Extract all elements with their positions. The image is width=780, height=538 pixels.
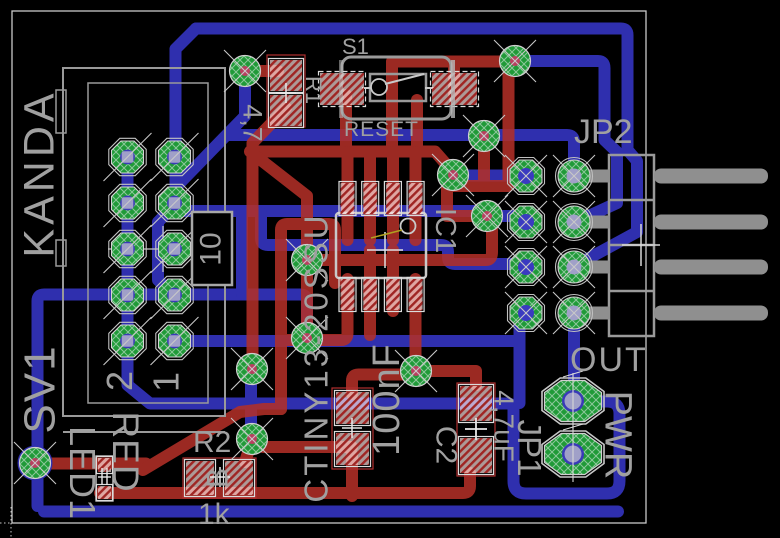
svg-text:KANDA: KANDA [16,89,64,257]
wire blue left vertical + row4 horizontal to via V6 [38,295,308,507]
via V5 [286,239,328,281]
via V11 [463,115,505,157]
header JP2 pads column 1 [505,155,547,197]
wire blue via V4 to JP2 pad 2 [487,216,526,222]
wire red vertical x281: up from LED diagonal, corner right to IC1 pad1 [281,224,335,409]
svg-text:LED1: LED1 [62,426,103,520]
IC1 pin 1 marker circle [401,219,416,234]
wire red bus diagonal down to via V5 [250,152,307,261]
svg-text:B: B [202,468,235,488]
wire red LED1 diagonal up to IC1 pin 1 net vertical [143,409,281,470]
JP2 origin cross [622,224,660,266]
wire blue SV1 left pad column down to bus [122,157,134,341]
via V9 [231,418,273,460]
wire blue vertical under JP2 pad4 down to long horizontal [514,313,526,403]
connector SV1 outline [56,68,225,416]
wire red IC1 bottom pads stubs [364,250,376,335]
via V2 [494,40,536,82]
svg-text:JP2: JP2 [574,113,633,151]
LED1 (RED) [96,456,113,501]
svg-text:RED: RED [105,411,146,492]
SV1 box extra silk line [63,431,225,433]
via V1 [224,50,266,92]
via V6 [286,317,328,359]
connector SV1 pads (through-hole) [104,133,152,181]
svg-text:OUT: OUT [570,341,648,379]
switch S1 lever and pin lines [362,74,434,95]
svg-text:RESET: RESET [344,118,419,141]
wire blue top bar1: top rail, right side down into JP2 pad 7 [196,29,637,268]
header JP2 pads column 2 [553,155,595,197]
IC1 origin cross [367,232,403,268]
board outline (Dimension layer) [12,11,646,523]
wire blue branch down from L1 to row4 horizontal [236,211,248,294]
svg-text:S1: S1 [342,34,369,59]
wire blue via V3 to JP2 pad 1 row [453,170,526,182]
header JP2 pins (gray) [574,169,768,321]
wire red via V11 stub [478,136,490,182]
origin cross bottom-left [0,507,30,538]
wire red R1 bottom pad long vertical through vias V7 V9 [253,108,287,369]
wire red via V10 to LED1 top pad [35,458,146,470]
wire red via V9 to C1 bottom pad [252,439,352,447]
wire blue SV1 pad 10 through via V6 to JP2 pad 4 column [175,341,520,347]
wire red C1 bottom pad down to bottom horizontal [346,455,358,496]
wire red IC1 pin traces from bus into body [342,152,354,240]
svg-text:PWR: PWR [597,391,639,480]
svg-text:JP1: JP1 [511,420,548,477]
via V8 [395,350,437,392]
svg-text:CTINY13-20SSU: CTINY13-20SSU [298,212,335,502]
svg-text:10: 10 [195,232,228,265]
wire red horizontal bus under S1 from SV1 pad2 toward via V3 [252,152,453,173]
wire blue SV1 right column S-curve rows 2-4 [158,205,175,297]
switch S1 pin line over pad [451,60,455,118]
wire red R1 top pad to via V1 [245,65,278,77]
SV1 origin cross [108,226,220,272]
IC1 pads [341,183,355,214]
wire red S1 left pad down to bus [340,95,352,152]
via V7 [231,348,273,390]
wire blue L2 loop from L1 down to JP2 pad 3 [261,213,526,267]
svg-text:R2: R2 [193,426,231,459]
wire blue bar2 from via V2 to JP2 pad 6 [515,61,617,222]
via V4 [466,195,508,237]
svg-text:R1: R1 [301,76,326,104]
wire blue center route: SV1 pad(175,203) to under-IC horizontals [175,203,488,216]
via V10 blue annulus [18,446,53,481]
switch S1 pads [320,73,364,105]
wire red via V5 right then up to via V4 [307,216,492,260]
svg-text:100nF: 100nF [366,343,408,456]
wire blue bottom bus [44,506,618,518]
header JP2 body outline [609,155,654,336]
wire blue bar3 horizontal to JP2 pad 1 [227,135,574,176]
wire red S1 center pin down to bus [411,100,423,152]
svg-text:SV1: SV1 [16,344,65,433]
wire red C1 top pad to via V8 [352,375,416,395]
resistor R2 (1k) [183,458,256,498]
svg-text:2: 2 [99,371,140,391]
wire red long bottom horizontal from LED1 bottom pad to C2 bottom pad [100,473,470,493]
wire blue bottom U: from SV1 pad 9 diagonal, long horizontal, down, bottom, up to JP1 pad 1 [128,345,620,494]
wire blue via V7 down to via V9 [245,369,257,440]
wire blue from via V1 long diagonal down to SV1 pad 2 [176,71,245,203]
wire red via V9 stub down to R2 right pad [245,440,252,462]
capacitor C2 (4,7uF) [457,383,495,476]
svg-text:IC1: IC1 [429,208,461,253]
resistor R1 (4,7) [267,55,305,127]
wire red S1 arch and to via V2 [392,62,515,153]
via V10 [14,442,56,484]
svg-text:4,7: 4,7 [238,104,268,142]
svg-text:1k: 1k [198,498,231,531]
svg-text:1: 1 [146,372,187,392]
airwire (yellow ratsnest) [371,230,402,238]
svg-text:C2: C2 [430,426,463,464]
wire blue top-left diagonal into SV1 pad column [176,29,197,204]
header JP1 pads (PWR) [542,371,604,429]
label 10 box [192,212,232,285]
switch S1 outline [342,57,451,119]
wire red IC1 pin4 bottom through via V8 to C2 top pad [416,279,477,385]
wire red IC1 pin1 bottom to via V6 [281,279,348,340]
via V3 [432,154,474,196]
wire red via V5 down to via V6 [301,260,313,338]
IC1 body outline (SOIC-8) [336,213,426,278]
capacitor C1 (100nF) [332,388,373,469]
wire blue JP2 col2 row4 down to JP1 pad 1 [568,313,580,401]
wire red from via V2 down, left, down to via V4 [447,61,515,216]
wire red S1 right pad stub up [448,62,460,96]
